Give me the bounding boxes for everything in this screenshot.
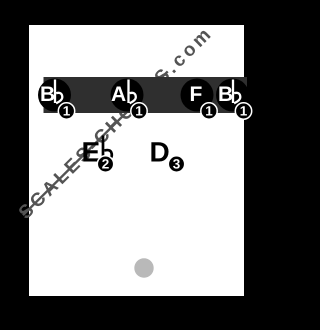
fret marker dot [134,258,153,277]
finger badge 2 (Eb) [97,156,113,172]
svg-text:D: D [150,137,170,168]
note circle Ab string3 [111,79,144,112]
paper [29,25,244,296]
watermark SCALES-CHORDS.com (rotated, struck through) [15,22,217,223]
finger badge 1 (F) [201,103,217,119]
finger badge 3 (D) [168,156,184,172]
note circle F string5 [181,79,214,112]
svg-text:1: 1 [63,104,71,119]
finger badge 1 (Ab) [131,103,147,119]
svg-text:F: F [190,83,203,106]
svg-text:A: A [111,83,126,106]
svg-text:B: B [40,83,55,106]
barre band [44,77,248,113]
svg-text:1: 1 [205,104,213,119]
svg-text:3: 3 [173,157,181,172]
svg-text:B: B [218,83,233,106]
finger badge 1 (Bb2) [235,103,251,119]
svg-text:1: 1 [240,104,248,119]
finger badge 1 (Bb string1) [58,103,74,119]
svg-text:1: 1 [135,104,143,119]
note circle Bb string1 [38,79,71,112]
svg-text:2: 2 [102,157,110,172]
note circle Bb string6 [216,79,249,112]
